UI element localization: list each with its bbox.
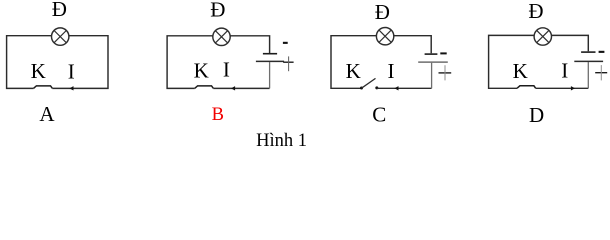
polarity label + (circuit C) (439, 65, 452, 80)
switch K (circuit C, open): blade (362, 78, 376, 88)
switch K (circuit A, closed, bump in wire) (34, 86, 53, 89)
wire: circuit B bottom-right segment to battery (213, 87, 269, 89)
wire: circuit C bottom-right segment to battery (377, 87, 432, 89)
battery (circuit B): long positive plate (256, 60, 284, 62)
lamp Đ (circuit D): circle with X (534, 28, 551, 45)
lamp Đ (circuit C): circle with X (376, 28, 393, 45)
current arrow I (circuit D, pointing right) (571, 86, 575, 90)
svg-text:I: I (561, 58, 568, 82)
wire: circuit A top-left + left + bottom-left segment (7, 36, 52, 89)
svg-text:K: K (346, 59, 361, 83)
svg-text:I: I (388, 59, 395, 83)
svg-text:Đ: Đ (375, 0, 390, 24)
svg-text:Hình 1: Hình 1 (256, 131, 307, 150)
wire: circuit C top-right segment to battery (394, 36, 431, 54)
wire: circuit B top-left + left + bottom-left segment (167, 36, 213, 89)
wire: circuit C battery bottom lead (431, 63, 433, 89)
svg-text:K: K (31, 59, 46, 83)
lamp Đ (circuit A): circle with X (52, 28, 69, 45)
polarity label + (circuit B) (283, 56, 293, 71)
svg-text:A: A (39, 102, 55, 126)
polarity label - (circuit D) (599, 51, 605, 53)
current arrow I (circuit A, pointing left) (69, 86, 73, 90)
polarity label - (circuit B) (283, 42, 288, 44)
svg-text:Đ: Đ (52, 0, 67, 21)
battery (circuit D): short negative plate (581, 51, 595, 53)
svg-text:B: B (212, 105, 224, 125)
svg-text:D: D (529, 103, 544, 127)
wire: circuit B battery bottom lead (269, 62, 271, 88)
wire: circuit C top-left + left + bottom-left segment (331, 36, 376, 89)
svg-text:Đ: Đ (210, 0, 225, 21)
polarity label + (circuit D) (595, 65, 607, 80)
wire: circuit D top-right segment to battery (552, 35, 589, 51)
wire: circuit B top-right segment to battery (230, 36, 269, 53)
wire: circuit D bottom-right segment to battery (536, 87, 589, 89)
lamp Đ (circuit B): circle with X (213, 28, 230, 45)
wire: circuit D top-left + left + bottom-left segment (489, 35, 534, 88)
battery (circuit B): short negative plate (263, 53, 277, 55)
svg-text:I: I (68, 59, 75, 83)
battery (circuit C): short negative plate (425, 53, 438, 55)
svg-text:I: I (223, 57, 230, 81)
wire: circuit D battery bottom lead (587, 62, 589, 88)
polarity label - (circuit C) (440, 52, 446, 54)
svg-text:Đ: Đ (528, 0, 543, 23)
wire: circuit A bottom-right + right + top-right segment (52, 36, 108, 89)
svg-text:K: K (513, 59, 528, 83)
switch K (circuit B, closed, bump in wire) (195, 86, 214, 89)
svg-text:K: K (194, 58, 209, 82)
battery (circuit C): long positive plate (418, 61, 448, 63)
svg-text:C: C (372, 102, 386, 126)
battery (circuit D): long positive plate (574, 60, 603, 62)
current arrow I (circuit C, pointing left) (394, 86, 398, 90)
switch K (circuit D, closed, bump in wire) (517, 86, 536, 89)
switch K (circuit C, open): pivot contact dot (360, 87, 363, 90)
current arrow I (circuit B, pointing left) (231, 86, 235, 90)
switch K (circuit C, open): right contact dot (375, 86, 378, 89)
